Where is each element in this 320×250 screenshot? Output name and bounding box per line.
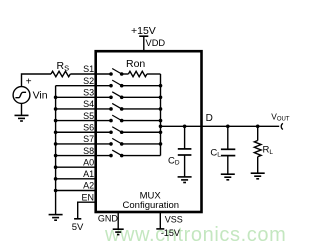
svg-text:-15V: -15V — [161, 228, 180, 238]
wire S6 pin — [56, 131, 111, 133]
terminal VOUT — [271, 111, 290, 129]
terminal -15V — [156, 228, 180, 238]
wire S3 pin — [56, 96, 111, 98]
switch SW2 (S2) — [109, 80, 123, 87]
wire S2 pin — [56, 85, 111, 87]
MUX box U1 — [96, 51, 202, 212]
wire S4 switch to inner bus — [122, 108, 161, 110]
wire left bus vertical — [55, 86, 57, 215]
switch SW1 (S1) — [109, 69, 123, 76]
svg-text:Configuration: Configuration — [123, 200, 180, 211]
wire S8 switch to inner bus — [122, 155, 161, 157]
wire S8 pin — [56, 155, 111, 157]
ground (CL) — [221, 174, 235, 180]
pin VSS wire — [159, 212, 161, 229]
ground (GND pin) — [113, 229, 124, 234]
svg-text:S6: S6 — [83, 122, 94, 132]
wire S3 switch to inner bus — [122, 96, 161, 98]
svg-text:S8: S8 — [83, 146, 94, 156]
junction dots on inner bus — [159, 84, 163, 146]
wire S4 pin — [56, 108, 111, 110]
svg-text:S2: S2 — [83, 76, 94, 86]
wire node D output — [161, 125, 280, 127]
svg-text:A1: A1 — [83, 169, 94, 179]
svg-text:5V: 5V — [72, 222, 84, 233]
junction dot at CL — [226, 125, 230, 129]
+15V supply terminal — [131, 25, 156, 37]
switch SW5 (S5) — [109, 115, 123, 122]
svg-text:A0: A0 — [83, 157, 94, 167]
svg-text:S4: S4 — [83, 99, 94, 109]
wire Vin to ground — [21, 103, 23, 115]
wire Rs to S1 pin — [70, 73, 111, 75]
svg-text:EN: EN — [81, 192, 94, 202]
wire A1 pin — [56, 178, 97, 180]
switch SW3 (S3) — [109, 92, 123, 99]
wire A2 pin — [56, 190, 97, 192]
junction dot at RL — [256, 125, 260, 129]
wire S7 switch to inner bus — [122, 143, 161, 145]
ground (RL) — [251, 173, 265, 179]
svg-text:www.cntronics.com: www.cntronics.com — [104, 224, 286, 246]
resistor RS — [51, 60, 70, 77]
svg-text:S5: S5 — [83, 111, 94, 121]
capacitor CL — [210, 126, 235, 174]
ground (Vin) — [15, 115, 29, 121]
switch SW8 (S8) — [109, 150, 123, 157]
label MUX Configuration — [123, 191, 180, 211]
capacitor CD — [168, 126, 191, 177]
wire S2 switch to inner bus — [122, 85, 161, 87]
junction dot at CD — [183, 125, 187, 129]
switch SW4 (S4) — [109, 103, 123, 110]
ground (CD) — [178, 177, 192, 183]
switch SW6 (S6) — [109, 127, 123, 134]
ground (left bus) — [49, 215, 63, 221]
svg-text:Vin: Vin — [33, 89, 48, 101]
svg-text:S1: S1 — [83, 64, 94, 74]
source Vin — [13, 76, 48, 103]
wire EN pin to 5V — [78, 202, 97, 219]
svg-text:+: + — [26, 76, 32, 87]
svg-text:S7: S7 — [83, 134, 94, 144]
junction dots on left bus — [54, 96, 58, 193]
wire S6 switch to inner bus — [122, 131, 161, 133]
resistor RL — [254, 126, 273, 173]
switch SW7 (S7) — [109, 138, 123, 145]
svg-text:S3: S3 — [83, 88, 94, 98]
svg-text:Ron: Ron — [126, 58, 145, 70]
terminal 5V — [72, 219, 84, 233]
svg-text:GND: GND — [98, 214, 119, 224]
pin GND wire — [117, 212, 119, 229]
svg-text:A2: A2 — [83, 181, 94, 191]
wire Vin to Rs — [22, 74, 52, 87]
svg-text:D: D — [206, 113, 213, 124]
wire S5 switch to inner bus — [122, 120, 161, 122]
svg-text:VDD: VDD — [146, 38, 166, 48]
wire Ron to inner bus — [147, 73, 161, 75]
wire VDD supply to box — [143, 36, 145, 52]
resistor Ron — [122, 58, 147, 77]
wire S5 pin — [56, 120, 111, 122]
wire inner bus vertical — [160, 74, 162, 156]
wire A0 pin — [56, 166, 97, 168]
wire S7 pin — [56, 143, 111, 145]
svg-text:VSS: VSS — [165, 214, 183, 224]
